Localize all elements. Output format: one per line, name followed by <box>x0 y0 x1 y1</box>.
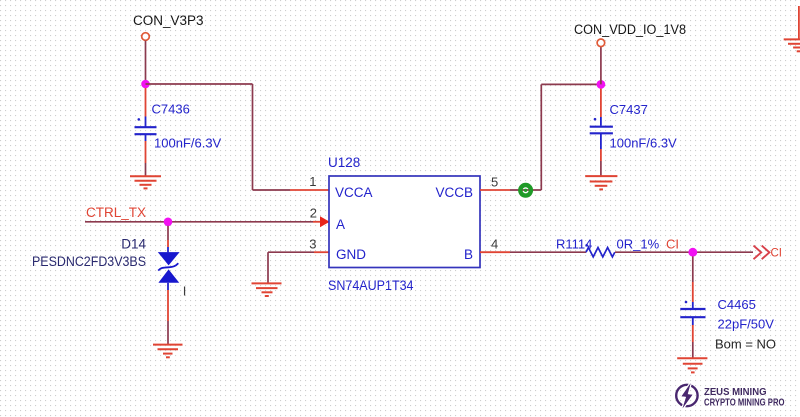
pin 4 of U128 <box>480 251 510 253</box>
capacitor C7436 polarity dot <box>138 118 141 121</box>
svg-text:5: 5 <box>491 175 498 190</box>
ground below C7437 <box>585 176 617 189</box>
junction node CI <box>688 248 697 257</box>
wire segment dark to ground <box>600 161 602 176</box>
diode D14 lower triangle <box>158 269 179 282</box>
svg-text:22pF/50V: 22pF/50V <box>718 317 775 332</box>
wire junction to D14 <box>167 226 169 240</box>
capacitor C7436 wire to ground <box>145 141 147 163</box>
capacitor C7437 plates <box>590 127 613 134</box>
svg-text:D14: D14 <box>121 237 146 252</box>
pin 2 input arrowhead <box>320 216 330 227</box>
power port CON_VDD_IO_1V8 open-circle pin <box>597 39 605 47</box>
junction node 3V3 <box>141 80 150 89</box>
power port CON_V3P3 open-circle pin <box>142 33 150 41</box>
capacitor C7436 plates <box>135 127 157 134</box>
wire horizontal to VDD junction <box>541 83 601 85</box>
D14 bottom lead <box>167 283 169 290</box>
wire pin 4 to resistor <box>510 251 586 253</box>
wire 3V3 vertical down to pin1 row <box>252 84 254 190</box>
wire to U128 pin 1 <box>253 189 291 191</box>
pin 2 of U128 <box>313 221 329 223</box>
junction node VDD_IO_1V8 <box>597 80 606 89</box>
svg-text:C7436: C7436 <box>152 102 190 117</box>
wire segment to ground dark <box>145 163 147 176</box>
capacitor C4465 wire to ground <box>692 325 694 342</box>
svg-text:Bom = NO: Bom = NO <box>715 336 776 351</box>
D14 top pin <box>167 240 169 247</box>
wire junction up to power circle <box>600 47 602 85</box>
capacitor C7436 top lead <box>145 117 147 127</box>
wire U128 pin 3 to ground corner <box>268 251 314 253</box>
capacitor C4465 top lead <box>692 302 694 309</box>
ground top right corner (cut off) <box>784 39 800 51</box>
wire segment dark to ground <box>692 342 694 358</box>
svg-text:2: 2 <box>310 206 317 221</box>
wire CTRL_TX <box>85 221 313 223</box>
pin 5 of U128 <box>480 189 510 191</box>
capacitor C4465 top pin <box>692 282 694 302</box>
svg-text:0R_1%: 0R_1% <box>617 236 660 251</box>
no-ERC marker green donut <box>520 185 531 196</box>
ground below C7436 <box>130 176 161 188</box>
wire 3V3 horizontal to the right <box>146 83 253 85</box>
ground below D14 <box>153 345 183 358</box>
svg-text:I: I <box>183 284 187 299</box>
capacitor C7437 polarity dot <box>594 118 597 121</box>
capacitor C7437 top lead <box>600 117 602 126</box>
svg-text:1: 1 <box>309 174 316 189</box>
D14 top lead <box>167 247 169 252</box>
svg-text:100nF/6.3V: 100nF/6.3V <box>154 136 222 151</box>
wire stub top right corner <box>798 6 800 39</box>
wire resistor to CI junction <box>615 251 753 253</box>
diode D14 upper triangle <box>158 252 180 265</box>
port chevron CI <box>754 246 770 260</box>
svg-text:CON_V3P3: CON_V3P3 <box>133 13 204 28</box>
svg-text:GND: GND <box>336 247 366 262</box>
wire pin 5 to corner <box>510 189 541 191</box>
svg-text:100nF/6.3V: 100nF/6.3V <box>610 135 678 150</box>
logo lightning bolt <box>682 383 693 408</box>
pin 3 of U128 <box>314 251 329 253</box>
svg-text:SN74AUP1T34: SN74AUP1T34 <box>328 278 414 293</box>
svg-text:VCCB: VCCB <box>435 185 473 200</box>
svg-text:CI: CI <box>666 236 679 251</box>
capacitor C4465 plates <box>680 309 705 317</box>
svg-text:U128: U128 <box>328 155 360 170</box>
svg-text:A: A <box>336 217 345 232</box>
svg-text:CI: CI <box>771 248 783 260</box>
ground below C4465 <box>677 358 707 372</box>
svg-text:ZEUS MINING: ZEUS MINING <box>704 387 767 398</box>
capacitor C7436 pin from junction <box>145 88 147 117</box>
logo zeus mining circle <box>676 385 697 406</box>
wire up toward CON_VDD_IO_1V8 <box>540 84 542 190</box>
svg-text:R1114: R1114 <box>556 236 592 251</box>
resistor R1114 designator dot <box>585 244 588 247</box>
wire to D14 ground <box>167 321 169 344</box>
wire CI junction down to C4465 <box>692 256 694 282</box>
junction node CTRL_TX <box>164 218 173 227</box>
resistor R1114 zigzag <box>586 248 615 257</box>
svg-text:4: 4 <box>491 237 498 252</box>
D14 bottom pin <box>167 290 169 321</box>
capacitor C4465 bottom lead <box>692 317 694 325</box>
svg-text:3: 3 <box>309 237 316 252</box>
svg-text:CTRL_TX: CTRL_TX <box>86 205 146 220</box>
logo lightning bolt white outline <box>682 383 693 408</box>
wire CON_V3P3 circle to junction <box>145 41 147 84</box>
pin 1 of U128 <box>290 189 329 191</box>
svg-text:C7437: C7437 <box>610 102 648 117</box>
svg-text:C4465: C4465 <box>718 297 756 312</box>
svg-text:B: B <box>464 247 473 262</box>
capacitor C7437 bottom lead <box>600 133 602 149</box>
capacitor C7436 bottom lead <box>145 134 147 141</box>
capacitor C7437 wire to ground <box>600 149 602 161</box>
diode D14 zener bar <box>158 263 178 270</box>
capacitor C7437 pin from junction <box>600 89 602 117</box>
svg-text:CON_VDD_IO_1V8: CON_VDD_IO_1V8 <box>574 22 686 37</box>
wire down from pin 3 corner <box>267 252 269 283</box>
svg-text:CRYPTO MINING PRO: CRYPTO MINING PRO <box>704 397 785 408</box>
ground at U128 pin 3 <box>252 283 282 296</box>
op-amp U128 body <box>329 176 480 268</box>
svg-text:PESDNC2FD3V3BS: PESDNC2FD3V3BS <box>32 254 146 269</box>
capacitor C4465 polarity dot <box>685 301 688 304</box>
svg-text:VCCA: VCCA <box>335 185 373 200</box>
